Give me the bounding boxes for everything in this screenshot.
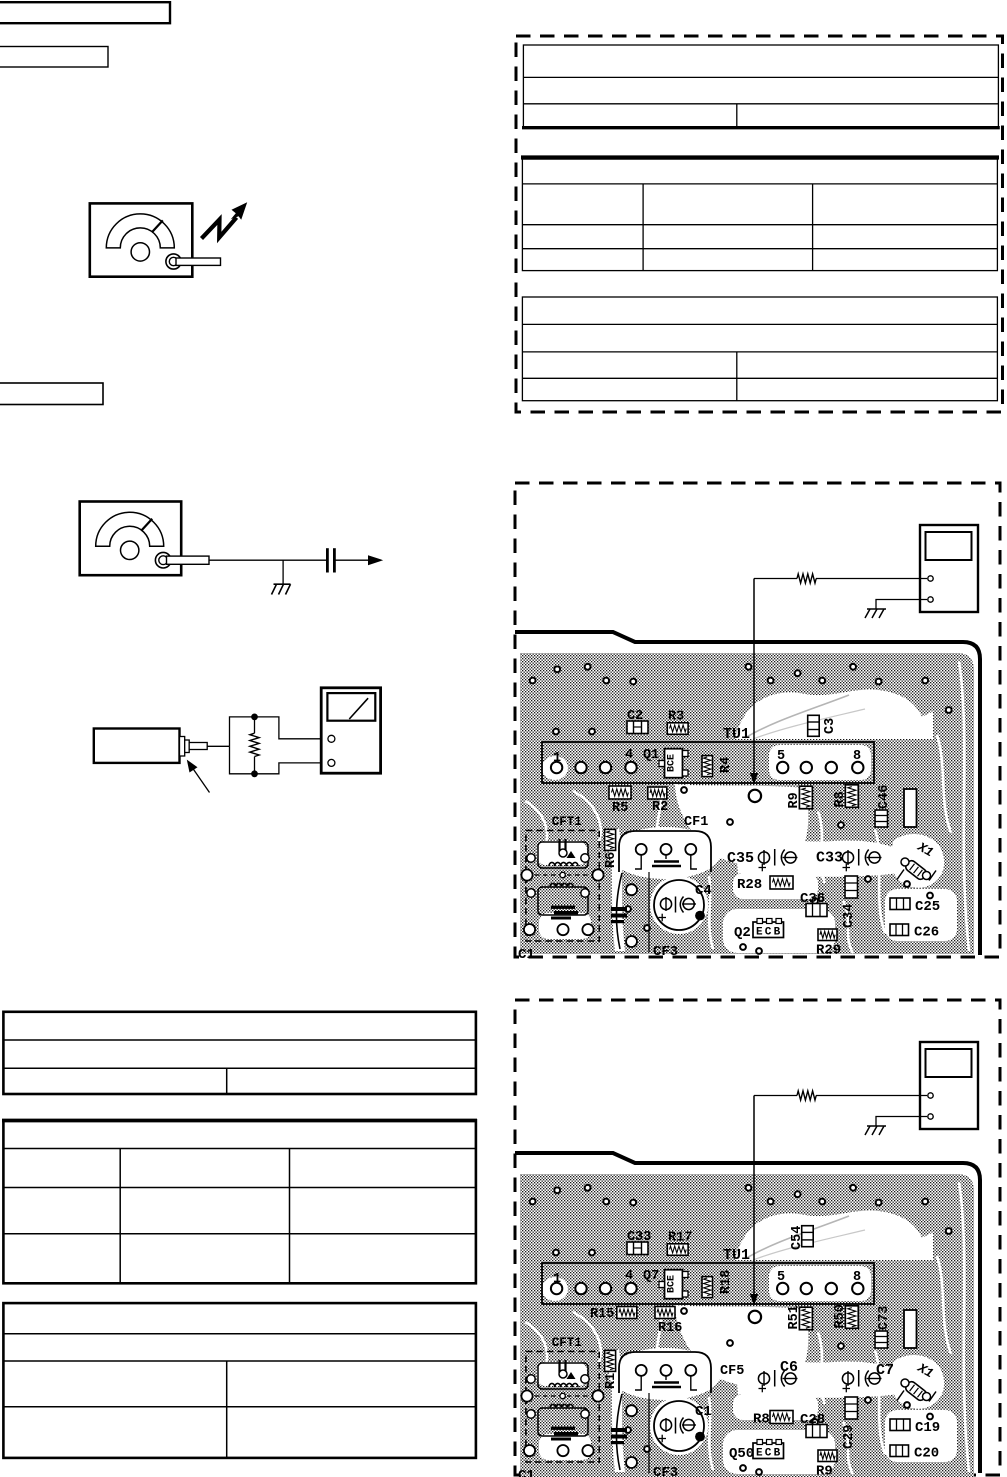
- TU1 pads: [551, 762, 864, 773]
- white region CF1: [609, 827, 721, 879]
- table TA: [3, 1012, 476, 1094]
- capacitor C29: [845, 1397, 858, 1419]
- svg-text:TU1: TU1: [723, 726, 750, 743]
- resistor R1: [605, 1350, 616, 1371]
- faint trace in clearance: [745, 695, 849, 738]
- ground symbol: [272, 584, 291, 594]
- probe pad (measurement point): [749, 790, 761, 802]
- wire to load: [207, 745, 229, 747]
- ground symbol: [865, 609, 886, 618]
- capacitor C19: [890, 1419, 910, 1431]
- svg-text:R1: R1: [604, 1373, 619, 1389]
- resistor R29: [818, 929, 837, 941]
- RF lightning arrow: [202, 218, 237, 239]
- resistor R18: [702, 1277, 713, 1298]
- electrolytic bars: [611, 907, 627, 911]
- connector component (white rect): [904, 1310, 917, 1348]
- svg-text:R8: R8: [833, 791, 848, 807]
- IC TU1 outline: [542, 742, 874, 783]
- resistor R2: [648, 787, 667, 799]
- label box 3: [0, 383, 103, 405]
- svg-text:R4: R4: [719, 757, 734, 773]
- resistor R4: [702, 756, 713, 777]
- resistor R5: [609, 786, 631, 799]
- capacitor C46: [875, 810, 888, 827]
- vias: [530, 1185, 952, 1475]
- table T2: [521, 158, 999, 271]
- white channel between CFT1 and CF1: [609, 1350, 625, 1472]
- load network rails: [230, 717, 332, 774]
- probe pad (measurement point): [749, 1311, 761, 1323]
- svg-text:R9: R9: [787, 792, 802, 808]
- white area in TU1 right half: [769, 1266, 871, 1301]
- svg-text:R6: R6: [604, 852, 619, 868]
- white region C25/C26 labels: [885, 889, 957, 941]
- svg-text:8: 8: [853, 1270, 861, 1285]
- svg-text:Q2: Q2: [734, 925, 751, 941]
- vias: [530, 664, 952, 954]
- svg-text:C25: C25: [915, 899, 940, 915]
- IC TU1 outline: [542, 1263, 874, 1304]
- resistor R9: [818, 1450, 837, 1462]
- svg-text:5: 5: [777, 1270, 785, 1285]
- copper pour (halftone): [520, 1174, 974, 1477]
- svg-text:ECB: ECB: [756, 927, 782, 939]
- M2 probe jack: [155, 552, 171, 568]
- meter M1 (signal strength meter with RF arrow): [90, 202, 247, 276]
- white region C4: [650, 1397, 708, 1455]
- svg-text:C46: C46: [877, 785, 892, 809]
- capacitor C26: [890, 924, 909, 936]
- svg-text:C3: C3: [823, 718, 838, 734]
- resistor R51: [799, 1307, 812, 1330]
- svg-text:C33: C33: [816, 850, 843, 867]
- resistor R6: [605, 829, 616, 850]
- oscilloscope/meter SSG meter 1: [920, 525, 978, 612]
- capacitor C3: [808, 715, 820, 736]
- svg-text:4: 4: [625, 1269, 633, 1284]
- svg-text:CF3: CF3: [653, 1465, 678, 1477]
- dashed panel border P2: [515, 1000, 1000, 1475]
- svg-text:4: 4: [625, 748, 633, 763]
- TU1 pads: [551, 1283, 864, 1294]
- white clearance above TU1 right: [735, 1210, 929, 1260]
- ceramic filter CF3: [616, 873, 622, 949]
- svg-text:C29: C29: [842, 1425, 857, 1449]
- white area below TU1 center: [675, 784, 808, 866]
- resistor R8: [845, 785, 858, 808]
- table T1: [522, 45, 1000, 128]
- svg-text:C20: C20: [914, 1446, 939, 1462]
- dashed spec panel: [516, 36, 1003, 412]
- probe wire down to board: [753, 1096, 755, 1298]
- svg-text:CF3: CF3: [653, 944, 678, 960]
- svg-text:1: 1: [553, 1272, 561, 1287]
- capacitor C25: [890, 898, 910, 910]
- capacitor C73: [875, 1331, 888, 1348]
- M1 probe jack: [166, 254, 181, 269]
- svg-text:R2: R2: [652, 800, 668, 815]
- load resistor: [250, 733, 259, 756]
- svg-text:BCE: BCE: [667, 754, 678, 772]
- title box: [0, 2, 170, 23]
- capacitor C54: [802, 1226, 814, 1247]
- white region C25/C26 labels: [885, 1410, 957, 1462]
- resistor R50: [845, 1306, 858, 1329]
- meter M3 box: [321, 688, 380, 773]
- white region CF1: [609, 1348, 721, 1400]
- svg-text:ECB: ECB: [756, 1448, 782, 1460]
- signal generator box: [94, 688, 381, 793]
- white region R28: [733, 1394, 818, 1420]
- svg-text:R28: R28: [737, 877, 762, 893]
- svg-text:C19: C19: [915, 1420, 940, 1436]
- white region Q2: [723, 909, 835, 953]
- oscilloscope/meter SSG meter 2: [920, 1042, 978, 1129]
- junction dots: [251, 714, 258, 721]
- white region C4: [650, 876, 708, 934]
- copper pour (halftone): [520, 653, 974, 954]
- svg-text:C34: C34: [842, 904, 857, 928]
- white channel between CFT1 and CF1: [609, 829, 625, 951]
- filter transformer CFT1: [521, 815, 603, 941]
- white band near C35/C33 labels: [735, 840, 898, 877]
- svg-text:C1: C1: [518, 947, 535, 963]
- ground stub wire: [282, 560, 284, 584]
- board outline: [515, 632, 980, 955]
- svg-text:R16: R16: [658, 1321, 682, 1336]
- table TC: [3, 1303, 476, 1458]
- white area below TU1 center: [675, 1305, 808, 1387]
- trace clearances: [525, 1182, 969, 1474]
- capacitor C34: [845, 876, 858, 898]
- ground symbol: [865, 1126, 886, 1135]
- white blobs CFT1: [537, 1362, 587, 1386]
- probe rod: [189, 743, 207, 750]
- M3 needle: [349, 698, 368, 719]
- output wire with arrow: [334, 559, 373, 561]
- ground wire: [876, 600, 927, 610]
- faint trace in clearance: [745, 1216, 849, 1259]
- white region X1: [891, 1355, 944, 1409]
- svg-text:CF1: CF1: [684, 815, 708, 830]
- M3 terminals: [328, 735, 335, 742]
- svg-text:C35: C35: [727, 850, 754, 867]
- white region X1: [891, 834, 944, 888]
- white area in TU1 right half: [769, 745, 871, 780]
- resistor R16: [655, 1307, 675, 1319]
- ceramic filter CF3: [616, 1394, 622, 1470]
- svg-text:R8: R8: [753, 1412, 770, 1428]
- svg-text:R18: R18: [719, 1270, 734, 1294]
- svg-text:C54: C54: [790, 1226, 805, 1250]
- svg-text:C1: C1: [518, 1468, 535, 1477]
- meter M2 (field strength meter with coupling capacitor): [80, 502, 384, 595]
- trace clearances: [525, 661, 969, 953]
- svg-text:R5: R5: [612, 801, 628, 816]
- svg-text:Q7: Q7: [643, 1269, 659, 1284]
- white clearance left of pad 1: [542, 756, 568, 780]
- svg-text:8: 8: [853, 749, 861, 764]
- white blobs CFT1: [537, 841, 587, 865]
- svg-text:CF5: CF5: [720, 1364, 744, 1379]
- svg-text:1: 1: [553, 751, 561, 766]
- series resistor on probe wire: [754, 578, 797, 580]
- M2 probe rod: [167, 556, 210, 564]
- svg-text:5: 5: [777, 749, 785, 764]
- board outline: [515, 1153, 980, 1473]
- generator output connector: [180, 737, 185, 757]
- svg-text:R29: R29: [816, 943, 841, 959]
- wire to capacitor: [209, 559, 326, 561]
- svg-text:R51: R51: [787, 1305, 802, 1329]
- white region Q2: [723, 1430, 835, 1474]
- svg-text:BCE: BCE: [667, 1275, 678, 1293]
- capacitor C20: [890, 1445, 909, 1457]
- M1 probe rod: [176, 258, 221, 265]
- white clearance left of pad 1: [542, 1277, 568, 1301]
- pointer arrow to connector: [192, 767, 210, 793]
- table TB: [2, 1120, 477, 1283]
- filter transformer CFT1: [521, 1336, 603, 1462]
- dashed panel border P1: [515, 483, 1000, 957]
- svg-text:Q1: Q1: [643, 748, 659, 763]
- probe wire down to board: [753, 579, 755, 777]
- svg-text:CFT1: CFT1: [552, 815, 582, 829]
- white band near C35/C33 labels: [735, 1361, 898, 1398]
- coupling capacitor: [326, 548, 329, 572]
- electrolytic bars: [611, 1428, 627, 1432]
- ground wire: [876, 1117, 927, 1127]
- resistor R9: [799, 786, 812, 809]
- table T3: [522, 297, 997, 401]
- svg-text:R15: R15: [590, 1307, 614, 1322]
- svg-text:R50: R50: [833, 1304, 848, 1328]
- svg-text:Q50: Q50: [729, 1446, 754, 1462]
- svg-text:R9: R9: [816, 1464, 833, 1477]
- svg-text:TU1: TU1: [723, 1247, 750, 1264]
- label box 2: [0, 47, 108, 68]
- svg-text:C73: C73: [877, 1306, 892, 1330]
- white region R28: [733, 873, 818, 899]
- svg-text:CFT1: CFT1: [552, 1336, 582, 1350]
- white clearance above TU1 right: [735, 689, 929, 739]
- connector component (white rect): [904, 789, 917, 827]
- svg-text:C26: C26: [914, 925, 939, 941]
- series resistor on probe wire: [754, 1095, 797, 1097]
